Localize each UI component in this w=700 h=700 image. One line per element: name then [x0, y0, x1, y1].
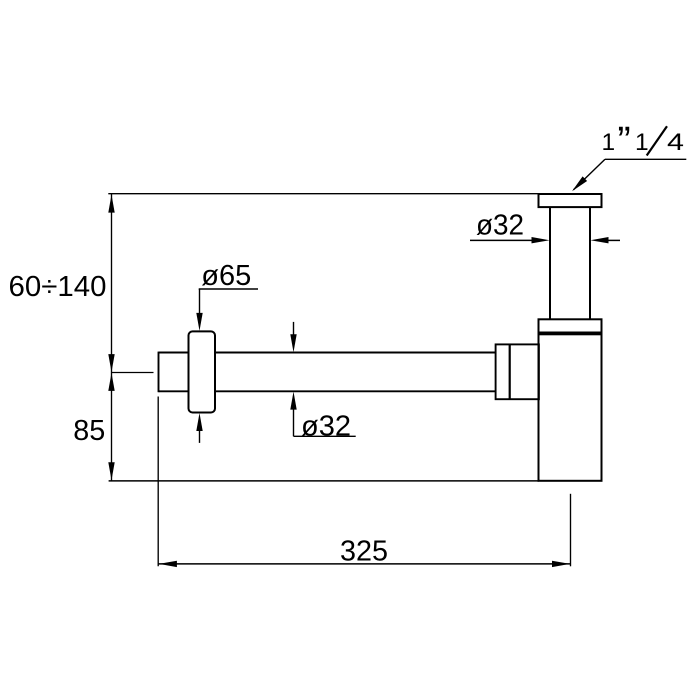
trap body	[539, 334, 602, 481]
svg-text:ø32: ø32	[476, 210, 524, 242]
svg-text:60÷140: 60÷140	[9, 271, 107, 303]
leader ø32 pipe underline	[294, 435, 356, 437]
extension line 325 right	[570, 494, 572, 567]
svg-text:ø65: ø65	[201, 260, 251, 292]
svg-text:ø32: ø32	[301, 411, 351, 443]
wire horizontal inlet pipe	[159, 352, 496, 393]
wall escutcheon flange	[189, 331, 216, 412]
leader ø65 bottom tail	[199, 429, 201, 443]
svg-text:325: 325	[340, 536, 388, 568]
dimension line 325	[158, 563, 570, 565]
top flange	[539, 194, 602, 207]
leader 1"1/4 diagonal	[574, 159, 606, 190]
body top flange	[539, 319, 602, 332]
arrow left-dim bottom down	[108, 462, 114, 480]
svg-text:”: ”	[617, 119, 630, 163]
arrow ø32 pipe up	[290, 392, 296, 410]
arrow 1"1/4	[572, 176, 587, 191]
extension line body bottom	[109, 480, 539, 482]
arrow ø65 up	[196, 413, 202, 431]
dimension line ø32 riser right	[607, 239, 620, 241]
extension line 325 left	[157, 397, 159, 567]
svg-text:85: 85	[73, 415, 105, 447]
svg-text:4: 4	[667, 129, 684, 156]
arrow left-dim top up	[108, 195, 114, 213]
arrow ø32 riser right	[591, 237, 609, 243]
dimension line left vertical	[111, 194, 113, 481]
arrow left-dim mid up	[108, 373, 114, 391]
arrow 325 left	[159, 561, 177, 567]
extension line pipe axis	[112, 372, 154, 374]
leader ø65 vertical	[199, 289, 201, 315]
leader ø32 pipe lower tail	[293, 408, 295, 436]
riser pipe	[550, 207, 590, 319]
arrow ø32 pipe down	[290, 334, 296, 352]
svg-text:1: 1	[635, 129, 649, 156]
leader ø32 pipe upper tail	[293, 322, 295, 336]
arrow left-dim mid down	[108, 354, 114, 372]
nut divider line	[509, 344, 511, 399]
arrow ø65 down	[196, 313, 202, 331]
compression nut	[496, 344, 539, 399]
leader ø65 underline	[199, 288, 258, 290]
svg-text:1: 1	[602, 129, 616, 156]
arrow ø32 riser left	[532, 237, 550, 243]
arrow 325 right	[552, 561, 570, 567]
leader 1"1/4 underline	[605, 158, 686, 160]
label 1"1/4	[602, 119, 685, 163]
extension line top (flange top level)	[108, 193, 540, 195]
dimension line ø32 riser left	[470, 239, 533, 241]
